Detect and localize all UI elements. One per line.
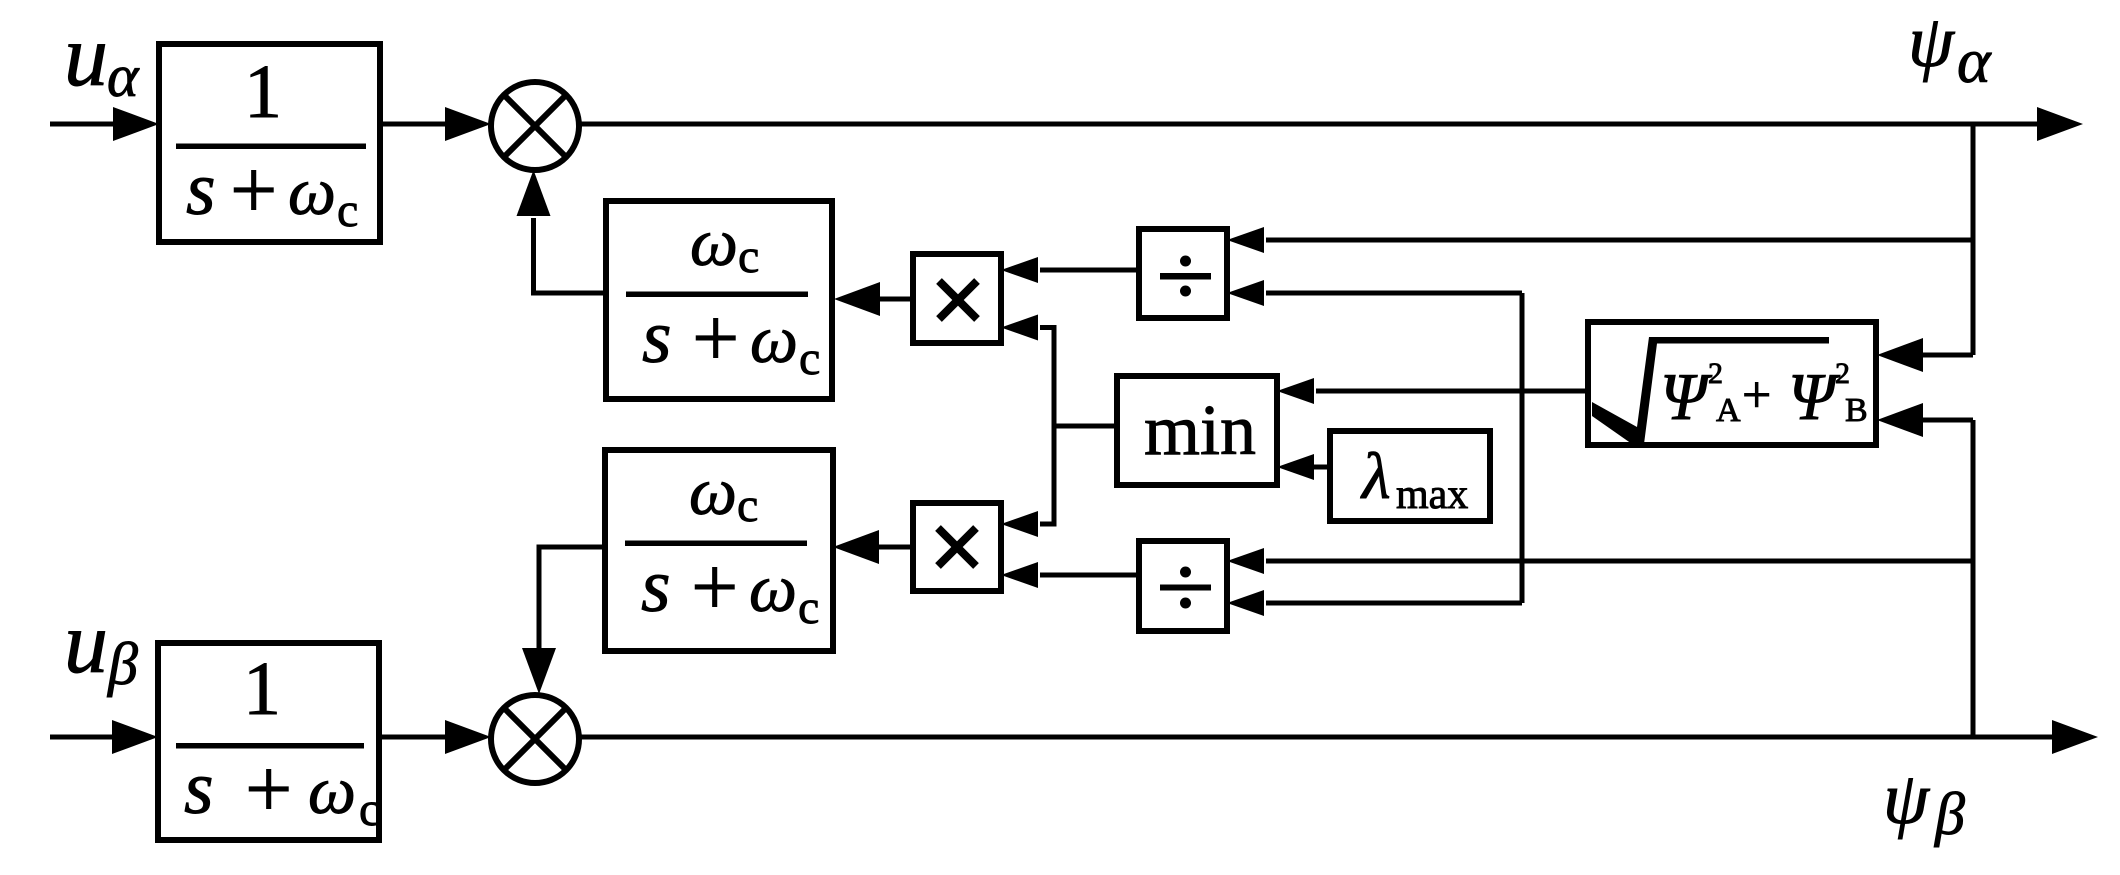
fraction bar in W2 xyxy=(625,541,807,547)
divide symbol in D2 xyxy=(1160,585,1211,591)
svg-text:c: c xyxy=(359,783,380,836)
svg-text:+: + xyxy=(1742,367,1771,424)
arrowhead into D1 lower xyxy=(1227,280,1264,306)
wire box B1 to multiplier M1 xyxy=(380,122,448,127)
svg-text:2: 2 xyxy=(1835,357,1850,390)
svg-text:1: 1 xyxy=(244,50,282,134)
wire sqrt output to min upper input xyxy=(1316,389,1588,394)
wire M2 to psi_beta output xyxy=(579,735,2055,740)
svg-text:1: 1 xyxy=(243,647,281,731)
multiplier circle M2 xyxy=(491,695,579,783)
arrowhead into min upper xyxy=(1277,378,1314,404)
svg-text:u: u xyxy=(64,595,108,692)
svg-text:A: A xyxy=(1716,392,1741,429)
arrowhead into W2 xyxy=(833,530,879,564)
fraction bar in B2 xyxy=(176,743,364,749)
arrowhead up into M1 xyxy=(517,170,551,216)
svg-text:c: c xyxy=(799,332,820,385)
svg-text:+: + xyxy=(692,292,739,385)
wire psi_alpha branch down xyxy=(1971,124,1976,355)
block D1 divider xyxy=(1139,229,1227,318)
wire stub into sqrt lower input xyxy=(1922,418,1973,423)
wire W1 output up into M1 xyxy=(534,218,608,293)
arrowhead into X1 upper xyxy=(1001,257,1038,283)
arrowhead into sqrt upper xyxy=(1877,338,1923,372)
svg-text:ω: ω xyxy=(689,453,737,529)
arrowhead into D1 upper xyxy=(1227,227,1264,253)
arrowhead into W1 xyxy=(834,282,880,316)
wire mid vertical from min output xyxy=(1040,328,1054,525)
fraction bar in B1 xyxy=(176,144,366,150)
svg-text:s: s xyxy=(641,544,671,628)
block B1 transfer function 1/(s+wc) alpha xyxy=(159,44,380,242)
wire min output xyxy=(1052,424,1118,429)
svg-text:c: c xyxy=(737,479,758,532)
arrowhead into M1 left xyxy=(445,107,491,141)
arrowhead into min lower xyxy=(1277,454,1314,480)
block LAMBDA-MAX xyxy=(1330,431,1490,521)
wire W2 output down into M2 xyxy=(539,547,605,651)
arrowhead into sqrt lower xyxy=(1877,403,1923,437)
arrowhead into B2 xyxy=(112,720,158,754)
svg-text:s: s xyxy=(642,295,672,379)
arrowhead psi_alpha output xyxy=(2037,107,2083,141)
svg-text:u: u xyxy=(64,8,108,105)
wire branch to divider D2 upper input xyxy=(1266,559,1973,564)
svg-text:s: s xyxy=(184,746,214,830)
wire D2 lower input from magnitude vertical xyxy=(1266,601,1522,606)
svg-text:+: + xyxy=(245,743,292,836)
arrowhead into D2 upper xyxy=(1227,548,1264,574)
arrowhead into X2 lower xyxy=(1001,562,1038,588)
wire stub into sqrt upper input xyxy=(1922,353,1973,358)
svg-text:α: α xyxy=(1957,25,1992,96)
svg-text:ψ: ψ xyxy=(1908,1,1956,83)
svg-text:+: + xyxy=(691,541,738,634)
svg-text:c: c xyxy=(798,581,819,634)
svg-text:ω: ω xyxy=(749,550,797,626)
svg-text:Ψ: Ψ xyxy=(1788,360,1841,434)
block W2 transfer function wc/(s+wc) lower xyxy=(605,450,833,651)
svg-text:ω: ω xyxy=(308,752,356,828)
wire D1 lower input from magnitude vertical xyxy=(1266,291,1522,296)
X symbol in X1 xyxy=(939,281,977,319)
wire branch to divider D1 upper input xyxy=(1266,238,1973,243)
block X2 multiplier xyxy=(913,503,1001,591)
block SQRT magnitude xyxy=(1588,322,1876,445)
svg-text:c: c xyxy=(738,230,759,283)
svg-text:β: β xyxy=(107,631,138,697)
wire D2 output to X2 lower input xyxy=(1040,573,1139,578)
arrowhead into B1 xyxy=(113,107,159,141)
svg-text:ω: ω xyxy=(750,301,798,377)
block X1 multiplier xyxy=(913,254,1001,343)
X symbol in X2 xyxy=(938,528,976,566)
arrowhead into X1 lower xyxy=(1001,315,1038,341)
block W1 transfer function wc/(s+wc) upper xyxy=(606,201,832,399)
arrowhead into D2 lower xyxy=(1227,590,1264,616)
divide symbol in D1 xyxy=(1160,273,1211,280)
wire input u_beta xyxy=(50,735,116,740)
svg-text:max: max xyxy=(1396,472,1468,518)
wire X2 output to W2 xyxy=(878,545,913,550)
svg-text:λ: λ xyxy=(1360,440,1391,513)
arrowhead into M2 left xyxy=(445,720,491,754)
svg-text:s: s xyxy=(186,147,216,231)
wire X1 output to W1 xyxy=(879,297,913,302)
svg-text:ω: ω xyxy=(690,204,738,280)
wire D1 output to X1 upper input xyxy=(1040,268,1139,273)
cross in M1 xyxy=(504,95,566,157)
arrowhead into X2 upper xyxy=(1001,511,1038,537)
cross in M2 xyxy=(504,708,566,770)
svg-text:β: β xyxy=(1934,781,1965,847)
arrowhead psi_beta output xyxy=(2052,720,2098,754)
multiplier circle M1 xyxy=(491,82,579,170)
sqrt radical glyph with vinculum xyxy=(1592,337,1829,444)
block B2 transfer function 1/(s+wc) beta xyxy=(158,643,379,840)
svg-text:2: 2 xyxy=(1708,357,1723,390)
svg-text:ω: ω xyxy=(288,153,336,229)
wire input u_alpha xyxy=(50,122,116,127)
block D2 divider xyxy=(1139,541,1227,631)
fraction bar in W1 xyxy=(626,292,808,298)
wire psi_beta branch up xyxy=(1971,420,1976,737)
wire box B2 to multiplier M2 xyxy=(379,735,448,740)
wire lambda_max to min lower input xyxy=(1312,465,1330,470)
svg-text:+: + xyxy=(230,144,277,237)
svg-text:Ψ: Ψ xyxy=(1660,360,1713,434)
svg-text:B: B xyxy=(1845,392,1868,429)
svg-text:min: min xyxy=(1144,390,1256,470)
wire magnitude vertical xyxy=(1520,293,1525,603)
block MIN xyxy=(1117,376,1277,485)
svg-text:c: c xyxy=(337,184,358,237)
svg-text:α: α xyxy=(107,43,140,109)
wire M1 to psi_alpha output xyxy=(579,122,2040,127)
svg-text:ψ: ψ xyxy=(1883,758,1931,840)
arrowhead down into M2 xyxy=(522,648,556,694)
